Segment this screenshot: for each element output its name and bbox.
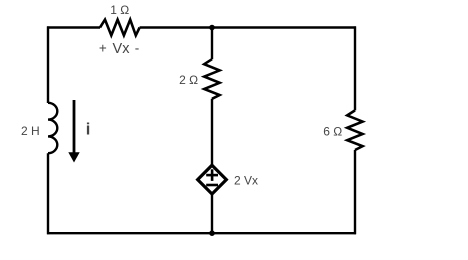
wire: right vertical lower segment — [354, 150, 356, 234]
current arrow i — [73, 100, 76, 154]
wire: left vertical upper segment — [47, 26, 49, 103]
wire: middle vertical from top node — [211, 28, 213, 60]
svg-text:Vx: Vx — [113, 41, 131, 57]
wire: bottom horizontal segment — [47, 232, 356, 234]
wire: left vertical lower segment — [47, 153, 49, 234]
svg-text:i: i — [86, 121, 91, 139]
wire: middle vertical resistor to source — [211, 99, 213, 166]
wire: right vertical upper segment — [354, 26, 356, 110]
resistor R1 (1 ohm) zigzag — [100, 20, 140, 36]
svg-text:1 Ω: 1 Ω — [110, 3, 129, 17]
svg-text:-: - — [135, 41, 140, 56]
plus sign inside source — [206, 174, 218, 177]
minus sign inside source — [206, 184, 218, 187]
svg-text:2 Vx: 2 Vx — [234, 174, 258, 188]
svg-text:2 Ω: 2 Ω — [179, 73, 198, 87]
resistor R3 (6 ohm) zigzag — [347, 110, 362, 150]
svg-text:2 H: 2 H — [21, 124, 40, 138]
wire: top-left horizontal segment — [47, 26, 100, 28]
svg-text:6 Ω: 6 Ω — [323, 125, 342, 139]
resistor R2 (2 ohm) zigzag — [204, 59, 219, 99]
dependent source (diamond) 2 Vx — [198, 165, 227, 194]
node: bottom junction dot — [209, 230, 215, 236]
svg-text:+: + — [99, 41, 107, 56]
wire: top-right horizontal segment — [140, 26, 356, 28]
node: top junction dot — [209, 25, 215, 31]
wire: middle vertical source to bottom node — [211, 193, 213, 233]
inductor L1 (2 H) — [48, 103, 57, 153]
